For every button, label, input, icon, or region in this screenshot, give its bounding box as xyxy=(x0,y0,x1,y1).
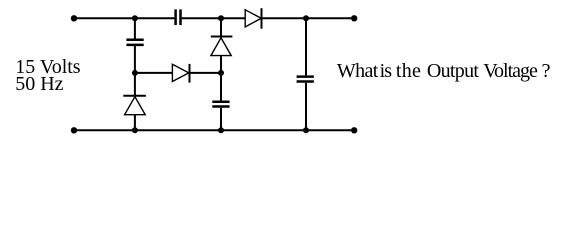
label question: is xyxy=(380,61,392,81)
node junction middle-left (x=135,y=73) xyxy=(132,70,138,76)
wire left branch upper xyxy=(134,18,136,38)
diode D4 (left branch, pointing up) xyxy=(123,96,146,115)
terminal dot bottom-left xyxy=(71,127,77,133)
wire top rail right segment xyxy=(262,17,355,19)
node junction top C (x=306) xyxy=(303,15,309,21)
node junction middle-right (x=221,y=73) xyxy=(218,70,224,76)
wire top rail middle segment xyxy=(182,17,245,19)
node junction bottom-left (x=135) xyxy=(132,127,138,133)
wire left branch lower xyxy=(134,115,136,131)
wire right branch upper xyxy=(305,18,307,75)
capacitor C3 (middle branch) xyxy=(212,102,229,107)
label 15 Volts / 50 Hz xyxy=(15,59,80,94)
label question: Output xyxy=(427,61,478,81)
wire mid branch lower xyxy=(220,108,222,131)
wire bottom rail xyxy=(74,129,354,131)
wire right branch lower xyxy=(305,83,307,131)
label question: ? xyxy=(542,61,551,81)
terminal dot bottom-right xyxy=(351,127,357,133)
terminal dot top-right xyxy=(351,15,357,21)
wire top rail left segment xyxy=(74,17,174,19)
node junction bottom-middle (x=221) xyxy=(218,127,224,133)
label question: What xyxy=(337,61,378,81)
node junction top B (x=221) xyxy=(218,15,224,21)
label question: Voltage xyxy=(483,61,537,81)
wire middle rail right segment xyxy=(190,72,222,74)
node junction bottom-right (x=306) xyxy=(303,127,309,133)
wire middle rail left segment xyxy=(135,72,172,74)
wire mid branch upper xyxy=(220,18,222,36)
diode D3 (middle rail, pointing right) xyxy=(172,64,189,83)
diode D1 (top rail, pointing right) xyxy=(245,8,261,29)
wire mid branch middle xyxy=(220,56,222,101)
capacitor C4 (output branch) xyxy=(297,77,314,82)
terminal dot top-left xyxy=(71,15,77,21)
wire left branch middle xyxy=(134,46,136,96)
diode D2 (middle branch, pointing up) xyxy=(211,37,233,56)
node junction top A (x=135) xyxy=(132,15,138,21)
capacitor C1 (series, top rail) xyxy=(176,9,181,25)
label question: the xyxy=(396,61,421,81)
capacitor C2 (left branch) xyxy=(126,40,143,45)
